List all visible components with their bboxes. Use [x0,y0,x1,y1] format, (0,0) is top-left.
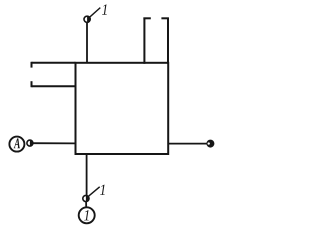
left winding lead lower tick [31,81,33,87]
top-right lead right tick [161,17,168,19]
wire: bottom terminal to indicator [85,202,87,208]
wire: top edge extension to left winding lead [32,62,76,64]
wire: ammeter to body left side [33,142,76,144]
wire: top terminal to body [86,22,88,63]
label 1 (bottom) [100,185,105,195]
ammeter letter A [14,138,20,148]
wire: body bottom to bottom terminal [86,154,88,195]
wire: body right side to right terminal [168,143,207,145]
terminal 1 (top, half-filled circle) [84,16,90,22]
leader line to top label 1 [90,8,101,18]
device body (rectangle) [76,63,169,154]
right terminal (filled circle with light notch) [207,140,214,147]
indicator instrument P1 (circle with 1) [79,207,95,223]
wire: top-right winding lead left vertical [143,18,145,64]
left winding lead upper tick [31,62,33,68]
wire: left winding lower lead [32,85,77,87]
top-right lead left tick [143,17,150,19]
wire: top-right winding lead right vertical (right edge extension) [167,18,169,64]
label 1 (top) [102,4,107,14]
ammeter terminal (half-filled circle) [27,140,33,146]
ammeter PA [9,137,24,152]
indicator digit 1 [84,210,89,220]
terminal 1 (bottom, half-filled circle) [83,195,89,201]
leader line to bottom label 1 [88,187,99,197]
